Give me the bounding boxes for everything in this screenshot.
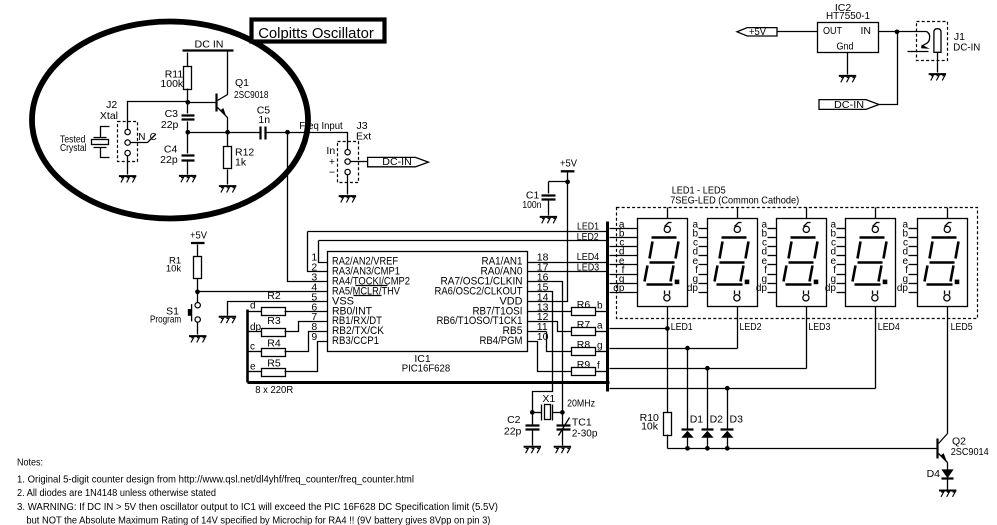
svg-text:e: e [250, 362, 256, 373]
svg-text:f: f [597, 360, 600, 371]
+5V tag at IC2 [737, 28, 777, 36]
X1 left wire [533, 412, 542, 414]
junction dot freq node [285, 130, 290, 135]
svg-text:22p: 22p [160, 154, 178, 166]
crystal bottom lead [101, 148, 110, 158]
DC IN rail bar [183, 49, 234, 51]
J3 pin 3 circle [345, 169, 350, 174]
C2 bottom lead [532, 431, 534, 446]
wire J2 pin1 to base node [128, 102, 188, 130]
wire emitter node to C5 [228, 132, 260, 134]
crystal X1 [542, 405, 553, 421]
Q1 emitter arrowhead [221, 108, 227, 118]
capacitor C4 plates [182, 156, 195, 161]
J1 center pin capsule [934, 29, 941, 53]
junction dot LED1 select [665, 326, 670, 331]
wire pin16 RA7 OSC1 to crystal [528, 282, 563, 413]
regulator IC2 box [818, 23, 879, 53]
svg-text:dp: dp [897, 283, 909, 294]
R7 right lead to bus [596, 331, 607, 333]
J3 pin 1 circle [345, 150, 350, 155]
resistor R4 220R [262, 349, 286, 357]
svg-text:Xtal: Xtal [100, 110, 118, 122]
svg-text:Colpitts Oscillator: Colpitts Oscillator [258, 25, 374, 42]
svg-text:g: g [597, 340, 603, 351]
wire pin13 to R6 [528, 311, 572, 313]
ground below D4 [939, 491, 956, 497]
ellipse around Colpitts oscillator section [32, 22, 308, 219]
ground below J1 [929, 74, 946, 80]
svg-text:Crystal: Crystal [60, 142, 87, 154]
svg-text:2SC9014: 2SC9014 [951, 446, 989, 458]
Colpitts Oscillator title box [252, 20, 385, 42]
capacitor C3 plates [182, 116, 195, 120]
svg-text:R3: R3 [267, 315, 281, 327]
connector J1 dashed box [917, 22, 948, 61]
resistor R3 220R [262, 329, 286, 337]
svg-text:LED5: LED5 [951, 322, 973, 333]
wire f row to display3 [610, 368, 807, 370]
R3 right lead jog to IC1 [285, 322, 328, 332]
C3 top lead [187, 103, 189, 114]
J2 no-connect wire [131, 135, 156, 143]
junction dot base node [185, 100, 190, 105]
diode D3 [727, 389, 729, 430]
ground below J2 [119, 176, 136, 182]
ground below C4 [179, 176, 196, 182]
ground below J3 [339, 196, 356, 202]
svg-text:100k: 100k [160, 78, 184, 90]
svg-text:HT7550-1: HT7550-1 [826, 10, 870, 22]
J3 pin3 ground lead [347, 175, 349, 195]
wire IC2 IN to DC-IN node [879, 31, 898, 33]
svg-text:IN: IN [861, 25, 872, 37]
display5 cathode wire to Q2 [947, 307, 949, 434]
junction dot D3 bottom [725, 446, 730, 451]
wire pin4 RA5 to R1 junction [198, 291, 328, 293]
display2 cathode wire [737, 307, 739, 349]
svg-text:R4: R4 [267, 338, 281, 350]
+5V symbol above R1 [191, 242, 205, 244]
TC1 arrow [559, 418, 570, 436]
connector J3 dashed box [338, 142, 359, 183]
IC2 ground lead [847, 53, 849, 75]
J1 sleeve arrowhead [921, 45, 930, 49]
IC1 TOCKI underline [356, 285, 388, 287]
svg-text:N: N [138, 132, 145, 143]
wire segment-a row to LED1 line [610, 328, 668, 330]
wire pin17 RA0 LED3 row [528, 271, 607, 273]
ground below R12 [219, 186, 236, 192]
display4 segment pin labels [825, 219, 837, 294]
svg-text:DC-IN: DC-IN [953, 41, 980, 53]
C4 top lead [187, 133, 189, 154]
svg-text:C: C [150, 132, 157, 143]
J2 pin 1 circle [125, 129, 130, 134]
trimmer TC1 plates [557, 426, 571, 430]
C3 bottom lead [187, 122, 189, 133]
svg-text:TC1: TC1 [572, 416, 592, 428]
svg-text:J2: J2 [106, 99, 117, 111]
resistor R1 [194, 257, 202, 279]
svg-text:2SC9018: 2SC9018 [234, 89, 269, 101]
wires segment bus to display1 pins a-dp [610, 229, 638, 293]
svg-text:7SEG-LED (Common Cathode): 7SEG-LED (Common Cathode) [670, 194, 799, 206]
svg-text:20MHz: 20MHz [567, 398, 595, 410]
display area dashed box [617, 208, 978, 319]
+5V symbol above C1 node [561, 170, 575, 172]
DC-IN tag at IC2 [819, 100, 879, 110]
R1 bottom lead [197, 279, 199, 292]
7-seg display LED4 [846, 208, 896, 307]
svg-text:dp: dp [756, 283, 768, 294]
resistor R6 220R [572, 308, 596, 316]
svg-text:D4: D4 [927, 468, 941, 480]
wire DC-IN node to J1 [898, 31, 927, 33]
resistor R12 [224, 147, 232, 169]
svg-text:RB4/PGM: RB4/PGM [480, 335, 523, 347]
diode D1 [687, 349, 689, 430]
svg-text:DC-IN: DC-IN [382, 156, 412, 168]
7-seg display LED2 [708, 208, 758, 307]
C1 top lead [548, 182, 550, 194]
display2 segment stubs [699, 229, 708, 293]
resistor R10 [664, 413, 672, 436]
junction dot D1 top [685, 346, 690, 351]
wire +5V tag to IC2 OUT [778, 31, 818, 33]
svg-text:D2: D2 [710, 413, 724, 425]
C4 bottom lead [187, 162, 189, 175]
Q2 emitter wire [939, 454, 948, 463]
ground below S1 [189, 336, 206, 342]
diode D4 [947, 463, 949, 470]
svg-text:but NOT the Absolute Maximum R: but NOT the Absolute Maximum Rating of 1… [26, 515, 490, 525]
wire DC-IN node down to tag [880, 32, 898, 105]
wire LED1 row [308, 231, 607, 233]
wire pin11 jog to R8 [547, 332, 572, 352]
J1 pin ground lead [937, 53, 939, 73]
junction dot R1-S1-pin4 [195, 289, 200, 294]
svg-text:Notes:: Notes: [17, 457, 43, 469]
C1 bottom lead [548, 201, 550, 216]
crystal top lead [101, 127, 110, 138]
R12 bottom lead [227, 170, 229, 185]
R3 left lead [249, 331, 262, 333]
wire C5 to freq node [267, 132, 288, 134]
R6 right lead to bus [596, 311, 607, 313]
svg-text:−: − [329, 166, 335, 178]
resistor R7 220R [572, 328, 596, 336]
display5 segment pin labels [897, 219, 909, 294]
wire pin11 stub [528, 331, 547, 333]
junction dot D2 bottom [705, 446, 710, 451]
IC1 left pin numbers 1-9 [311, 252, 317, 344]
junction dot emitter node [225, 130, 230, 135]
7-seg display LED5 [918, 208, 968, 307]
junction dot DC-IN node [895, 29, 900, 34]
wire pin2 RA3 to LED1 row [308, 232, 328, 272]
display3 segment pin labels [756, 219, 768, 294]
svg-text:LED1: LED1 [577, 222, 599, 233]
svg-text:8 x 220R: 8 x 220R [255, 385, 293, 396]
X1 right wire [553, 412, 563, 414]
R10 bottom lead [667, 435, 669, 449]
junction dot C3-C4 node [185, 130, 190, 135]
display1 cathode wire down to R10 [667, 307, 669, 413]
display4 cathode wire [875, 307, 877, 389]
junction dot +5V node [565, 180, 570, 185]
junction dot D3 top [725, 386, 730, 391]
svg-text:R2: R2 [267, 290, 281, 302]
wire g row to display2 [610, 348, 738, 350]
svg-text:dp: dp [825, 283, 837, 294]
diode D2 [707, 369, 709, 430]
connector J2 dashed box [118, 122, 138, 162]
svg-text:22p: 22p [161, 119, 179, 131]
svg-text:R9: R9 [577, 359, 591, 371]
resistor R11 [184, 67, 192, 90]
wire base node to Q1 base [188, 102, 216, 104]
svg-text:LED4: LED4 [878, 322, 900, 333]
svg-text:X1: X1 [542, 393, 555, 405]
transistor Q2 base bar [936, 439, 938, 459]
svg-text:D3: D3 [730, 413, 744, 425]
wire J3 pin2 to DC-IN tag [351, 161, 368, 163]
svg-text:1k: 1k [235, 157, 247, 169]
switch S1 pushbutton [195, 303, 200, 308]
wire freq node to J3 [288, 133, 348, 150]
R12 top lead [227, 133, 229, 147]
svg-text:22p: 22p [504, 426, 522, 438]
svg-text:OUT: OUT [823, 25, 842, 37]
junction dot X1 right [560, 410, 565, 415]
resistor R8 220R [572, 348, 596, 356]
svg-text:DC IN: DC IN [195, 39, 224, 51]
wire +5V node to C1 [549, 181, 568, 183]
svg-text:dp: dp [613, 283, 625, 294]
svg-text:PIC16F628: PIC16F628 [402, 363, 451, 375]
svg-text:R7: R7 [577, 319, 591, 331]
resistor R9 220R [572, 368, 596, 376]
svg-text:b: b [597, 300, 603, 311]
svg-text:dp: dp [687, 283, 699, 294]
wire bus row to display4 [610, 388, 876, 390]
display1 segment pin labels [613, 219, 625, 294]
svg-text:DC-IN: DC-IN [834, 99, 864, 111]
ground below C1 [540, 217, 557, 223]
junction dot D2 top [705, 366, 710, 371]
wire freq node down to pin3 [288, 133, 328, 282]
svg-text:d: d [250, 301, 256, 312]
TC1 top lead [562, 413, 564, 425]
svg-text:LED4: LED4 [577, 252, 600, 263]
resistor R5 220R [262, 369, 286, 377]
svg-text:R6: R6 [577, 299, 591, 311]
R11 top lead wire [187, 53, 189, 67]
IC1 left pin names [332, 256, 410, 348]
wire C3-C4 node to Q1 emitter [188, 132, 228, 134]
junction dot D1 bottom [685, 446, 690, 451]
resistor R2 220R [262, 308, 286, 316]
R4 right lead jog to IC1 [285, 332, 328, 352]
wire pin10 jog to R9 [528, 342, 572, 372]
display5 segment stubs [909, 229, 918, 293]
IC1 MCLR underline [354, 295, 382, 297]
capacitor C1 plates [542, 196, 556, 200]
C2 top lead [532, 413, 534, 425]
resistor network bracket [246, 310, 249, 383]
R8 right lead to bus [596, 351, 607, 353]
svg-text:R5: R5 [267, 358, 281, 370]
svg-text:100n: 100n [522, 199, 541, 211]
tested crystal symbol [94, 138, 107, 148]
svg-text:1n: 1n [258, 114, 270, 126]
transistor Q1 base bar [215, 94, 217, 112]
junction dot X1 left [530, 410, 535, 415]
segment bus horizontal thick [248, 381, 610, 384]
svg-text:Program: Program [150, 314, 181, 326]
op IC1 body box [328, 252, 528, 352]
svg-text:+5V: +5V [749, 26, 766, 38]
ground below C2 [524, 447, 541, 453]
wire pin5 VSS to ground [228, 302, 328, 316]
svg-text:3. WARNING: If DC IN > 5V then: 3. WARNING: If DC IN > 5V then oscillato… [17, 501, 498, 513]
display4 segment stubs [837, 229, 846, 293]
R2 right lead to pin6 [285, 311, 328, 313]
J3 pin 2 circle [345, 159, 350, 164]
wire pin15 RA6 OSC2 to crystal [528, 292, 553, 413]
capacitor C2 plates [526, 426, 540, 430]
svg-text:+5V: +5V [560, 157, 577, 169]
Q2 collector wire [939, 434, 948, 444]
S1 bottom lead [197, 323, 199, 335]
display2 segment pin labels [687, 219, 699, 294]
svg-text:c: c [250, 342, 255, 353]
svg-text:9: 9 [311, 331, 317, 343]
J1 switched contact stub [908, 51, 929, 53]
J2 pin3 ground lead [127, 156, 129, 175]
segment bus vertical thick [606, 222, 609, 392]
Q1 emitter wire with arrow [218, 108, 228, 133]
R9 right lead to bus [596, 371, 607, 373]
ground below VSS [219, 317, 236, 323]
R2 left lead [249, 311, 262, 313]
7-seg display LED3 [777, 208, 827, 307]
Q1 collector wire [218, 52, 228, 101]
IC1 right pin names [435, 256, 523, 348]
svg-text:LED2: LED2 [577, 232, 599, 243]
R5 left lead [249, 371, 262, 373]
TC1 bottom lead [562, 431, 564, 446]
svg-text:a: a [597, 320, 603, 331]
capacitor C5 plates [261, 127, 266, 140]
svg-text:+5V: +5V [190, 230, 207, 242]
ground below IC2 [839, 76, 856, 82]
svg-text:Freq Input: Freq Input [299, 120, 343, 132]
svg-text:C2: C2 [507, 414, 521, 426]
+5V lead to junction [567, 173, 569, 182]
R4 left lead [249, 351, 262, 353]
R11 bottom lead wire [187, 89, 189, 103]
svg-text:LED3: LED3 [808, 322, 830, 333]
J2 pin 3 circle [125, 150, 130, 155]
S1 top lead [197, 292, 199, 303]
Q2 emitter arrowhead [941, 453, 948, 463]
7-seg display LED1 [638, 208, 688, 307]
wire diode row to Q2 base [668, 448, 937, 450]
DC-IN tag at J3 [368, 157, 429, 166]
svg-text:Gnd: Gnd [837, 40, 854, 52]
J2 pin 2 circle [125, 140, 130, 145]
svg-text:R8: R8 [577, 339, 591, 351]
display3 cathode wire [806, 307, 808, 369]
svg-text:LED1: LED1 [671, 322, 693, 333]
svg-text:RB3/CCP1: RB3/CCP1 [332, 335, 379, 347]
svg-text:10k: 10k [166, 263, 182, 274]
wire LED2 row [319, 240, 607, 242]
svg-text:LED2: LED2 [740, 322, 762, 333]
R5 right lead jog to IC1 [285, 342, 328, 372]
svg-text:2. All diodes are 1N4148 unles: 2. All diodes are 1N4148 unless otherwis… [17, 487, 216, 499]
svg-text:D1: D1 [690, 413, 704, 425]
R1 top lead [197, 245, 199, 257]
wire pin12 jog to R7 [528, 322, 572, 332]
wire pin14 VDD to +5V [528, 182, 568, 302]
svg-text:dp: dp [250, 322, 262, 333]
display3 segment stubs [768, 229, 777, 293]
svg-text:10k: 10k [641, 421, 659, 433]
svg-text:1. Original 5-digit counter de: 1. Original 5-digit counter design from … [17, 473, 414, 485]
svg-text:LED3: LED3 [577, 263, 600, 274]
IC1 right pin numbers 18-10 [537, 252, 549, 344]
svg-text:2-30p: 2-30p [572, 428, 598, 440]
wire pin1 RA2 to LED2 row [319, 241, 328, 263]
wire pin18 RA1 LED4 row [528, 262, 607, 264]
svg-text:Q1: Q1 [235, 77, 249, 89]
ground below TC1 [554, 447, 571, 453]
svg-text:Ext: Ext [356, 130, 371, 142]
J1 sleeve hook [922, 32, 930, 47]
